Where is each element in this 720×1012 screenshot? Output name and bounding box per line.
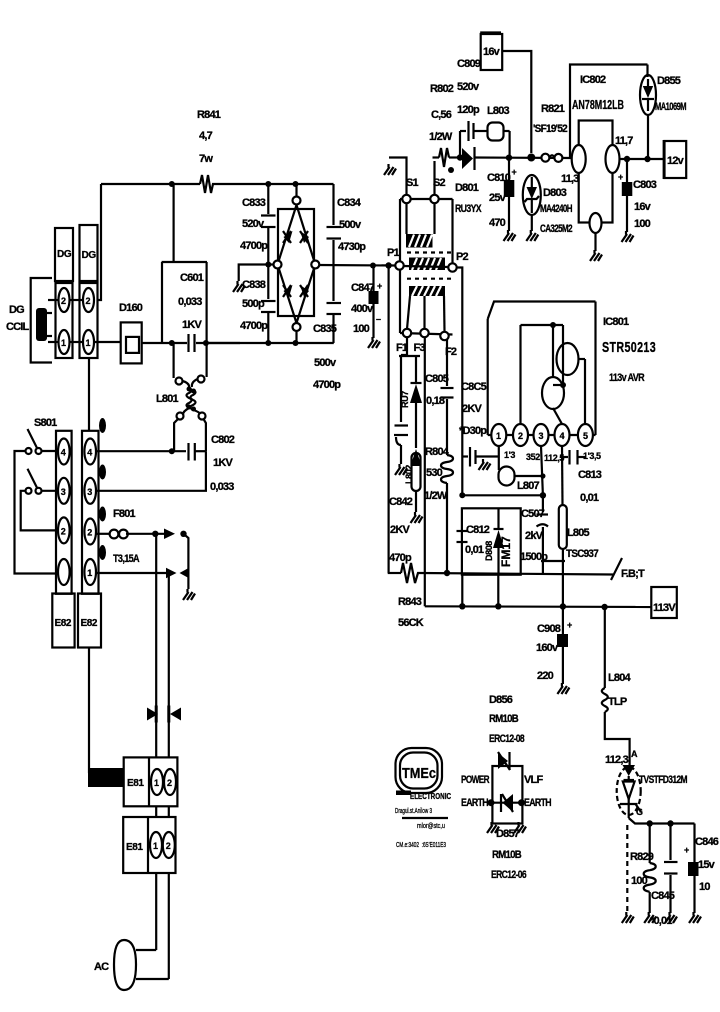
svg-text:C908: C908	[537, 623, 561, 635]
wire DG pin2 link	[69, 299, 84, 301]
transformer T801 primary winding	[406, 203, 435, 248]
IC801 pin 1	[491, 424, 506, 446]
svg-text:2: 2	[87, 528, 92, 538]
svg-text:P1: P1	[387, 247, 400, 259]
svg-text:RM10B: RM10B	[492, 849, 522, 861]
capacitor C809 label	[457, 58, 481, 116]
svg-text:2: 2	[167, 778, 172, 788]
bridge diode D1	[283, 231, 293, 243]
transformer T801 secondary winding	[409, 258, 445, 271]
node junction C810	[506, 155, 512, 161]
diode D803 labels	[540, 187, 573, 235]
resistor R821 label	[533, 103, 568, 135]
inductor L804	[602, 688, 608, 712]
wire E81 to AC plug	[156, 873, 169, 979]
svg-text:D803: D803	[543, 187, 567, 199]
wire top mains bus	[101, 183, 200, 185]
wire cathode bus	[629, 818, 695, 824]
node junction C809 loop left	[457, 154, 463, 160]
inductor L802	[404, 449, 422, 512]
capacitor C8C5 label	[459, 381, 487, 437]
bridge node left	[274, 261, 282, 269]
capacitor C847 electrolytic	[369, 266, 383, 339]
svg-text:4: 4	[87, 448, 92, 458]
svg-text:530: 530	[426, 467, 443, 479]
svg-text:5: 5	[583, 431, 588, 441]
node junction bridge top	[293, 181, 299, 187]
wire bridge bottom bus	[207, 342, 334, 344]
svg-text:DG: DG	[57, 249, 72, 260]
svg-text:113V: 113V	[653, 602, 676, 614]
svg-text:220: 220	[537, 670, 554, 682]
wire IC802 gnd	[594, 233, 596, 251]
node junction C845	[667, 820, 673, 826]
capacitor C842	[394, 426, 408, 465]
svg-text:4700p: 4700p	[240, 240, 268, 252]
svg-text:C,56: C,56	[431, 109, 452, 121]
svg-text:1: 1	[61, 338, 66, 348]
bridge node bottom	[293, 323, 301, 343]
svg-text:IC802: IC802	[580, 74, 606, 86]
svg-text:1KV: 1KV	[182, 319, 202, 331]
ground earth right	[514, 822, 526, 833]
diode D855 labels	[655, 75, 686, 113]
svg-text:CM.e:3402 :6S'E011E3: CM.e:3402 :6S'E011E3	[396, 842, 446, 849]
svg-text:R802: R802	[430, 83, 454, 95]
svg-text:2: 2	[166, 841, 171, 851]
svg-text:FM17: FM17	[499, 536, 513, 567]
svg-text:EARTH: EARTH	[461, 797, 489, 809]
svg-text:L802: L802	[404, 465, 414, 484]
wire bus to D801	[449, 156, 463, 158]
logo stadium	[396, 748, 443, 793]
wire earth mid	[489, 802, 524, 804]
svg-text:160v: 160v	[536, 642, 559, 654]
ground C803	[622, 231, 634, 242]
connector strip lower right	[82, 431, 99, 594]
wire F1 branch bar	[399, 355, 420, 357]
svg-text:L805: L805	[567, 527, 590, 539]
bridge rectifier outline	[278, 209, 314, 316]
IC801 outline	[488, 302, 596, 436]
svg-text:G: G	[636, 807, 643, 817]
resistor R821 fusible	[541, 154, 562, 162]
inductor L807	[499, 467, 543, 486]
capacitor C802	[189, 443, 206, 461]
wire L805 stub	[541, 560, 565, 562]
node F2	[440, 332, 448, 340]
svg-text:D808: D808	[484, 541, 494, 561]
svg-text:3: 3	[87, 487, 92, 497]
svg-text:1'3: 1'3	[504, 450, 515, 460]
svg-text:D801: D801	[455, 182, 479, 194]
node junction bus A left	[459, 492, 465, 498]
svg-text:RM10B: RM10B	[489, 713, 519, 725]
node junction P1 wire	[385, 262, 391, 268]
svg-text:C809: C809	[457, 58, 481, 70]
wire P2 to right drop	[457, 268, 463, 496]
node dot mark	[448, 167, 454, 173]
svg-text:4: 4	[61, 448, 66, 458]
wire gate dashed	[626, 825, 628, 913]
svg-text:S801: S801	[34, 417, 57, 429]
wire P2 drop to 113V bus	[461, 575, 463, 607]
ground R829	[644, 912, 656, 923]
svg-text:10: 10	[699, 881, 710, 893]
svg-text:4730p: 4730p	[338, 241, 366, 253]
svg-text:E82: E82	[81, 618, 98, 629]
svg-text:D856: D856	[489, 694, 513, 706]
svg-text:520v: 520v	[457, 81, 480, 93]
node junction C601 right	[203, 340, 209, 346]
svg-text:16v: 16v	[483, 46, 501, 58]
ground bridge mid-left	[233, 281, 245, 292]
ground C810	[504, 230, 516, 241]
svg-text:C846: C846	[695, 836, 719, 848]
svg-text:C842: C842	[389, 496, 413, 508]
diode D856	[498, 752, 510, 770]
node junction 113V c	[560, 603, 566, 609]
switch S801 pole1	[26, 429, 42, 454]
capacitor C833	[261, 184, 276, 264]
wire P1 to P2	[404, 266, 449, 267]
svg-text:2: 2	[61, 526, 66, 536]
IC802 label	[572, 74, 624, 112]
svg-text:0,01: 0,01	[465, 544, 484, 556]
svg-text:ERC12-06: ERC12-06	[491, 869, 527, 881]
node junction bus A right	[540, 492, 546, 498]
svg-text:D857: D857	[496, 828, 520, 840]
diode D802	[410, 356, 422, 448]
svg-text:120p: 120p	[457, 104, 480, 116]
svg-text:C802: C802	[211, 434, 235, 446]
svg-text:2KV: 2KV	[390, 524, 410, 536]
earth diode frame	[492, 766, 522, 824]
node P2	[448, 263, 456, 271]
ground S1 stub	[384, 164, 396, 175]
node blob a	[99, 418, 106, 433]
ground L802	[411, 512, 423, 523]
svg-text:16v: 16v	[634, 201, 652, 213]
ferrite bead line1	[147, 708, 158, 721]
svg-text:'SF19'52: 'SF19'52	[533, 123, 568, 135]
IC801 transistor Q2	[557, 343, 579, 375]
node junction C803	[624, 156, 630, 162]
switch S801 pole2	[26, 469, 42, 494]
svg-text:R843: R843	[398, 596, 422, 608]
node junction C601 left	[169, 340, 175, 346]
svg-text:4,7: 4,7	[199, 130, 213, 142]
node blob d	[99, 545, 106, 560]
capacitor C813 label	[578, 469, 602, 504]
svg-text:2: 2	[518, 431, 523, 441]
ferrite bead line2	[170, 708, 181, 721]
svg-text:L804: L804	[608, 672, 632, 684]
IC801 pin 5	[578, 424, 593, 446]
diode D808	[493, 508, 504, 574]
wire D808 drop to 113V bus	[497, 575, 499, 607]
capacitor C601	[162, 334, 240, 352]
svg-text:TVSTFD312M: TVSTFD312M	[639, 774, 687, 786]
logo address line2	[402, 818, 448, 830]
capacitor C845 label	[650, 890, 675, 927]
svg-text:113v AVR: 113v AVR	[609, 372, 645, 384]
svg-text:15v: 15v	[698, 859, 716, 871]
capacitor C838	[261, 264, 276, 343]
svg-text:+: +	[567, 620, 572, 630]
AC plug	[114, 940, 169, 990]
svg-text:L803: L803	[487, 105, 510, 117]
svg-text:TLP: TLP	[608, 696, 627, 708]
ground earth left	[487, 822, 499, 833]
svg-text:C813: C813	[578, 469, 602, 481]
capacitor C809	[460, 121, 474, 158]
wire DG pin1 to D160	[94, 341, 121, 343]
node junction C833 top	[265, 181, 271, 187]
capacitor C835	[327, 303, 342, 343]
capacitor C803 labels	[633, 179, 657, 230]
svg-text:S1: S1	[406, 177, 419, 189]
wire D160 to C601	[142, 342, 162, 344]
wire bus A	[462, 494, 543, 496]
svg-text:MA1069M: MA1069M	[655, 101, 686, 113]
svg-text:CCIL: CCIL	[6, 321, 30, 333]
wire 16v to bus	[502, 51, 531, 153]
ground C908	[557, 683, 569, 694]
svg-text:TMEc: TMEc	[402, 765, 436, 782]
resistor R829	[644, 824, 656, 914]
node junction D855	[644, 156, 650, 162]
svg-text:100: 100	[353, 323, 370, 335]
capacitor C842 label	[389, 496, 413, 564]
wire pin3 row to C802 right	[96, 451, 206, 491]
svg-text:VLF: VLF	[524, 774, 543, 786]
node DG CCIL label	[6, 304, 30, 333]
connector DG left label box	[55, 228, 73, 281]
filter box outline	[462, 508, 521, 574]
IC802 pin gnd	[590, 213, 602, 233]
svg-text:R821: R821	[541, 103, 565, 115]
svg-text:MA4240H: MA4240H	[540, 203, 573, 215]
arrow pin1 feed left	[180, 568, 190, 579]
wire drop to DG pin2	[98, 184, 101, 300]
resistor R841	[200, 175, 214, 193]
svg-text:CA325M2: CA325M2	[540, 223, 572, 235]
wire DG pin1 link	[69, 341, 84, 343]
logo electronic bar	[396, 791, 411, 796]
svg-text:2kV: 2kV	[525, 530, 544, 542]
svg-text:EARTH: EARTH	[524, 797, 552, 809]
wire pin2 row to fuse	[96, 533, 109, 535]
svg-text:–: –	[376, 314, 381, 324]
connector E82 left box	[52, 594, 74, 648]
node junction mid C833	[265, 262, 271, 268]
svg-text:C833: C833	[242, 197, 266, 209]
wire line1 down to E81	[155, 534, 157, 758]
svg-text:RU3YX: RU3YX	[455, 203, 482, 215]
fuse F801	[110, 530, 128, 539]
ground F801 return	[183, 589, 195, 600]
node junction bottom bridge	[293, 340, 299, 346]
capacitor C813	[562, 450, 585, 465]
diode D802 body	[400, 356, 410, 422]
wire pin1 down	[498, 446, 500, 470]
svg-text:L807: L807	[517, 480, 540, 492]
svg-text:500p: 500p	[242, 298, 265, 310]
node S2	[430, 195, 438, 203]
ground C847	[368, 337, 380, 348]
capacitor C805 label	[425, 373, 449, 407]
wire tertiary to F3	[423, 296, 425, 329]
capacitor C802 label	[210, 434, 235, 493]
node blob c	[99, 507, 106, 522]
svg-text:1/2W: 1/2W	[424, 490, 448, 502]
connector DG right label box	[80, 225, 98, 281]
wire CCIL stubs	[48, 300, 59, 342]
ground C845	[665, 912, 677, 923]
IC801 pin 3	[534, 424, 549, 446]
bridge node right	[311, 261, 319, 269]
resistor R802	[439, 148, 449, 167]
wire 113V bus	[425, 605, 652, 608]
wire IC802 out bus	[620, 158, 664, 160]
svg-text:0,033: 0,033	[210, 481, 234, 493]
wire S2 up to bus	[433, 161, 435, 194]
svg-text:D855: D855	[657, 75, 681, 87]
node S1	[402, 195, 410, 203]
wire S801 pole1 to pin4	[42, 450, 59, 452]
svg-text:E81: E81	[127, 778, 144, 789]
connector strip lower left	[56, 431, 72, 594]
svg-text:2: 2	[86, 296, 91, 306]
capacitor C812	[457, 531, 468, 542]
svg-text:TSC937: TSC937	[566, 548, 599, 560]
svg-text:+: +	[684, 845, 689, 855]
svg-text:P2: P2	[456, 251, 469, 263]
svg-text:11,7: 11,7	[615, 135, 633, 147]
bridge rectifier diamond	[278, 205, 316, 323]
svg-text:100: 100	[634, 218, 651, 230]
svg-text:POWER: POWER	[461, 774, 490, 786]
wire S801 pole2 to pin3	[42, 490, 59, 492]
IC802 pin in	[572, 145, 586, 173]
svg-text:C835: C835	[313, 323, 337, 335]
svg-text:C845: C845	[651, 890, 675, 902]
node junction 113V d	[601, 604, 607, 610]
capacitor C908 label	[536, 623, 561, 682]
diode D801	[462, 147, 475, 170]
inductor L805 label	[566, 527, 599, 560]
POWER EARTH label	[461, 774, 490, 809]
transformer T801 core dashes	[407, 253, 452, 279]
svg-text:DG: DG	[9, 304, 24, 316]
capacitor C838 label	[240, 279, 268, 332]
bridge node top	[293, 184, 301, 205]
svg-text:3: 3	[539, 431, 544, 441]
node earth mid left	[488, 799, 495, 806]
node junction 113V a	[459, 603, 465, 609]
svg-text:520v: 520v	[242, 218, 265, 230]
svg-text:T3,15A: T3,15A	[113, 553, 140, 565]
resistor R802 label	[429, 83, 454, 143]
svg-text:500v: 500v	[314, 357, 337, 369]
connector E81 upper	[124, 757, 178, 806]
svg-text:R841: R841	[197, 109, 221, 121]
resistor R841 label	[197, 109, 221, 165]
wire FBT bus right	[420, 573, 613, 575]
svg-text:470p: 470p	[389, 552, 412, 564]
capacitor C908 electrolytic	[557, 607, 572, 685]
svg-text:1: 1	[153, 841, 158, 851]
capacitor C601 label	[178, 272, 204, 331]
diode D803	[523, 175, 541, 231]
svg-text:E82: E82	[55, 618, 72, 629]
inductor L801 line filter	[174, 343, 207, 451]
wire DG strip to lower strip thick	[88, 358, 90, 431]
svg-text:1: 1	[86, 338, 91, 348]
node junction F801 out	[152, 531, 158, 537]
bridge diode D4	[300, 285, 309, 297]
wire pin3 down	[541, 446, 543, 495]
svg-text:ELECTRONIC: ELECTRONIC	[410, 792, 451, 801]
svg-text:3: 3	[61, 487, 66, 497]
wire left drop P1 to FBT	[388, 266, 390, 574]
svg-text:56CK: 56CK	[398, 617, 424, 629]
capacitor C507	[537, 495, 549, 561]
wire elbow to ground	[184, 534, 189, 589]
svg-text:1/2W: 1/2W	[429, 131, 453, 143]
ground C846	[689, 912, 701, 923]
svg-text:C8C5: C8C5	[461, 381, 487, 393]
svg-text:ERC12-08: ERC12-08	[489, 733, 525, 745]
node junction C802 left	[169, 448, 175, 454]
node junction 113V b	[495, 603, 501, 609]
capacitor C810 electrolytic	[504, 158, 517, 231]
wire L805 to C908 node	[562, 549, 564, 607]
node junction R804 FBT	[444, 570, 450, 576]
svg-text:1KV: 1KV	[213, 457, 233, 469]
VLF EARTH label	[524, 774, 552, 809]
wire E81 feed bar	[88, 768, 124, 787]
capacitor C803 electrolytic	[618, 159, 632, 232]
svg-text:R804: R804	[425, 446, 450, 458]
resistor R843 label	[398, 596, 424, 629]
svg-text:L801: L801	[156, 393, 179, 405]
wire line2 down to E81	[168, 573, 170, 758]
node P1	[395, 261, 403, 269]
inductor L803	[474, 123, 510, 158]
ground IC802	[590, 250, 602, 261]
FBT slash	[611, 558, 622, 580]
resistor R829 label	[630, 851, 654, 887]
wire bridge right to P1	[319, 264, 395, 267]
IC802 outline	[579, 121, 613, 223]
inductor L805	[559, 505, 567, 549]
wire E82 to E81 thick	[89, 647, 122, 772]
ground D803	[526, 230, 538, 241]
IC801 label	[602, 316, 656, 384]
capacitor C834	[327, 184, 342, 301]
svg-text:2KV: 2KV	[462, 403, 482, 415]
transformer T801 left edge	[399, 199, 401, 333]
svg-text:352: 352	[526, 452, 540, 462]
svg-text:1: 1	[154, 778, 159, 788]
capacitor C835 label	[313, 323, 341, 391]
wire F3 down long	[424, 337, 426, 606]
wire E81 gap links	[156, 806, 169, 817]
wire top bus right	[214, 183, 334, 185]
capacitor C846 label	[695, 836, 719, 893]
